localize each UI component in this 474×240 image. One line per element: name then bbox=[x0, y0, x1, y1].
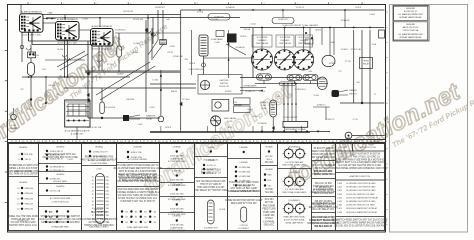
svg-text:B4: B4 bbox=[126, 222, 128, 224]
svg-text:21A BLK 348 L-B: 21A BLK 348 L-B bbox=[314, 225, 332, 228]
svg-text:C-670: C-670 bbox=[337, 208, 342, 210]
svg-text:L.H. FRONT PARK AND: L.H. FRONT PARK AND bbox=[285, 161, 304, 164]
svg-text:TURN GRN: TURN GRN bbox=[263, 212, 275, 214]
svg-text:14 GRN 30A: 14 GRN 30A bbox=[239, 166, 251, 169]
svg-text:GRY GND L-B BLK LAMP: GRY GND L-B BLK LAMP bbox=[230, 187, 257, 190]
svg-text:14 RED-YEL 297: 14 RED-YEL 297 bbox=[93, 151, 109, 153]
svg-text:460 BLK VIO VIO: 460 BLK VIO VIO bbox=[314, 168, 332, 170]
svg-text:DIRECTIONAL SIGNAL LAMPS: DIRECTIONAL SIGNAL LAMPS bbox=[282, 164, 307, 167]
svg-text:GRN-640: GRN-640 bbox=[25, 204, 34, 206]
svg-text:16 BLK 640 CIRCUIT TO ALL GAUG: 16 BLK 640 CIRCUIT TO ALL GAUGES bbox=[282, 24, 318, 27]
svg-text:16: 16 bbox=[92, 215, 94, 217]
svg-text:C-630: C-630 bbox=[337, 194, 342, 196]
svg-text:A CONN: A CONN bbox=[266, 155, 274, 158]
svg-text:12 BLK 37: 12 BLK 37 bbox=[326, 119, 335, 121]
svg-text:19 BLK 297: 19 BLK 297 bbox=[219, 86, 229, 88]
svg-text:W TURN LAMP FEED: W TURN LAMP FEED bbox=[168, 160, 187, 163]
svg-text:E LEGEND F: E LEGEND F bbox=[289, 200, 301, 202]
svg-text:BLU 977: BLU 977 bbox=[95, 209, 105, 211]
svg-text:CLUSTER RELAY 348 30A MOTOR: CLUSTER RELAY 348 30A MOTOR bbox=[81, 218, 118, 221]
svg-text:57 RED COIL 16: 57 RED COIL 16 bbox=[315, 206, 333, 208]
svg-text:2: 2 bbox=[230, 3, 231, 5]
svg-text:C-901: C-901 bbox=[96, 169, 101, 171]
svg-text:C-601: C-601 bbox=[149, 107, 154, 109]
svg-text:30A 977 BATT 14 D-G 640 FEED L: 30A 977 BATT 14 D-G 640 FEED LAMP TURN bbox=[336, 161, 384, 164]
svg-text:14 BRN 977: 14 BRN 977 bbox=[155, 7, 165, 9]
svg-text:14 BLK-YEL 37A: 14 BLK-YEL 37A bbox=[87, 126, 102, 129]
svg-text:RED LAMP 977 PNK 297: RED LAMP 977 PNK 297 bbox=[231, 202, 258, 205]
svg-text:37 BLU: 37 BLU bbox=[265, 218, 273, 220]
svg-text:GND CLUSTER FEED 37 BLK 21A GR: GND CLUSTER FEED 37 BLK 21A GRY bbox=[39, 218, 81, 221]
svg-text:16: 16 bbox=[92, 176, 94, 178]
svg-text:C-710 CLUSTER: C-710 CLUSTER bbox=[283, 117, 298, 119]
svg-text:C-710: C-710 bbox=[352, 119, 357, 121]
svg-text:TURN YEL L-B BATT PANEL 37 GRY: TURN YEL L-B BATT PANEL 37 GRY bbox=[118, 174, 157, 177]
svg-text:C-660: C-660 bbox=[337, 205, 342, 207]
svg-text:14 RED: 14 RED bbox=[260, 102, 267, 104]
svg-text:LEGEND: LEGEND bbox=[19, 147, 28, 149]
svg-text:640: 640 bbox=[166, 19, 169, 21]
svg-text:FUEL AND: FUEL AND bbox=[281, 39, 290, 42]
svg-text:21A GRN: 21A GRN bbox=[126, 98, 135, 101]
svg-text:16: 16 bbox=[92, 194, 94, 196]
svg-text:BRN BRN 57 37 14: BRN BRN 57 37 14 bbox=[201, 173, 222, 175]
svg-text:14 GRN 30A: 14 GRN 30A bbox=[239, 171, 251, 174]
svg-text:RELAY 16 16 640 BLK PNK: RELAY 16 16 640 BLK PNK bbox=[85, 156, 114, 159]
svg-text:C LEGEND D: C LEGEND D bbox=[289, 172, 301, 174]
svg-text:SIGNAL LAMP WIRING: SIGNAL LAMP WIRING bbox=[285, 222, 304, 225]
svg-text:14 BLK-YEL 37: 14 BLK-YEL 37 bbox=[50, 151, 65, 153]
svg-text:4: 4 bbox=[130, 3, 131, 5]
svg-text:FUEL AND: FUEL AND bbox=[258, 39, 267, 42]
svg-text:C-620: C-620 bbox=[337, 190, 342, 192]
svg-text:37 FUSE SWITCH TURN DOME GRY 1: 37 FUSE SWITCH TURN DOME GRY 16 bbox=[116, 165, 159, 167]
svg-text:460 WIPER 348 CONN: 460 WIPER 348 CONN bbox=[311, 157, 335, 159]
svg-text:AL AMP ALTERNATOR: AL AMP ALTERNATOR bbox=[57, 18, 78, 21]
svg-text:4 BLK 640 GND: 4 BLK 640 GND bbox=[170, 209, 184, 211]
svg-text:460 18 297 LAMP: 460 18 297 LAMP bbox=[314, 170, 333, 173]
svg-text:37 YEL: 37 YEL bbox=[345, 61, 351, 63]
svg-text:14 RED-YEL IGNITION COIL FEED: 14 RED-YEL IGNITION COIL FEED bbox=[346, 194, 375, 196]
svg-text:54 STOP SOL 37 WHT BATT 54 297: 54 STOP SOL 37 WHT BATT 54 297 54 bbox=[339, 153, 380, 156]
svg-text:HORN: HORN bbox=[363, 61, 369, 63]
svg-text:16 GRN-RED LIGHT SWITCH FEED: 16 GRN-RED LIGHT SWITCH FEED bbox=[346, 183, 376, 185]
svg-text:A JUNCTION: A JUNCTION bbox=[18, 219, 29, 222]
svg-text:2: 2 bbox=[30, 3, 31, 5]
svg-text:AL AMP ALTERNATOR: AL AMP ALTERNATOR bbox=[21, 10, 42, 13]
svg-text:LEGEND: LEGEND bbox=[406, 24, 415, 26]
svg-text:TURN 21A GRY RED HORN: TURN 21A GRY RED HORN bbox=[229, 181, 259, 184]
svg-text:30A CLUSTER FEED RED MOTOR SOL: 30A CLUSTER FEED RED MOTOR SOL LAMP bbox=[113, 167, 162, 170]
svg-text:B4: B4 bbox=[144, 222, 146, 224]
svg-text:A12: A12 bbox=[49, 210, 52, 213]
svg-text:W REAR LAMPS RELAY: W REAR LAMPS RELAY bbox=[399, 16, 422, 19]
svg-text:A 1500 B 1550 C 1600: A 1500 B 1550 C 1600 bbox=[22, 34, 41, 37]
svg-text:16 GRN-RED LIGHT SWITCH FEED: 16 GRN-RED LIGHT SWITCH FEED bbox=[346, 201, 376, 203]
svg-text:14 GRN 30A: 14 GRN 30A bbox=[239, 175, 251, 178]
svg-text:GND 30A PARK BRN IGN RED WIPER: GND 30A PARK BRN IGN RED WIPER bbox=[117, 188, 158, 191]
svg-text:TEMP GAUGE: TEMP GAUGE bbox=[279, 42, 292, 45]
svg-text:14 BLK 904: 14 BLK 904 bbox=[133, 19, 143, 21]
svg-text:PNK GND HORN D-G 297: PNK GND HORN D-G 297 bbox=[197, 187, 225, 189]
svg-text:A LAMP RELAY: A LAMP RELAY bbox=[170, 195, 184, 198]
svg-text:C-680: C-680 bbox=[337, 212, 342, 214]
svg-text:297: 297 bbox=[20, 89, 23, 91]
svg-text:16 BLK: 16 BLK bbox=[165, 127, 172, 129]
svg-text:GROUND: GROUND bbox=[10, 128, 19, 130]
svg-text:16 GRN-RED LIGHT SWITCH FEED: 16 GRN-RED LIGHT SWITCH FEED bbox=[346, 187, 376, 189]
svg-text:GRY COIL BRN DOME 348 IGN BRN: GRY COIL BRN DOME 348 IGN BRN bbox=[41, 222, 80, 224]
svg-text:C-601: C-601 bbox=[137, 124, 142, 126]
svg-text:LEGEND: LEGEND bbox=[95, 147, 104, 149]
svg-text:MOTOR RELAY RED SWITCH: MOTOR RELAY RED SWITCH bbox=[307, 222, 339, 225]
svg-text:16: 16 bbox=[92, 201, 94, 203]
svg-text:REAR LAMP DIRECTIONAL: REAR LAMP DIRECTIONAL bbox=[284, 216, 306, 219]
svg-text:FEED TURN: FEED TURN bbox=[262, 209, 275, 211]
svg-text:SWITCH WHT IGN D-G 16: SWITCH WHT IGN D-G 16 bbox=[9, 225, 37, 227]
svg-text:14 GRN: 14 GRN bbox=[341, 49, 348, 51]
svg-text:W CLUSTER: W CLUSTER bbox=[280, 37, 291, 39]
svg-text:A CLUSTER 57A FEED: A CLUSTER 57A FEED bbox=[128, 158, 148, 161]
svg-text:14 BLK-YEL STARTER MOTOR RELAY: 14 BLK-YEL STARTER MOTOR RELAY bbox=[346, 196, 379, 199]
svg-text:640 TURN GRN PNK 54 20 FUSE: 640 TURN GRN PNK 54 20 FUSE bbox=[43, 157, 79, 159]
svg-text:14 YEL 21A: 14 YEL 21A bbox=[50, 189, 61, 192]
svg-text:GND ACC: GND ACC bbox=[264, 224, 275, 227]
svg-text:B 640: B 640 bbox=[261, 105, 266, 107]
svg-text:14 YEL-BLK: 14 YEL-BLK bbox=[105, 107, 116, 109]
svg-text:C-603: C-603 bbox=[67, 159, 72, 161]
svg-text:B4: B4 bbox=[126, 211, 128, 213]
svg-text:RED: RED bbox=[268, 174, 273, 176]
svg-text:C-830: C-830 bbox=[169, 46, 174, 48]
svg-text:ABCD-123 FD-30: ABCD-123 FD-30 bbox=[403, 26, 420, 29]
svg-text:R.H. FRONT PARK AND: R.H. FRONT PARK AND bbox=[285, 188, 304, 191]
svg-text:TURN BATT GRY YEL 37 PNK 57: TURN BATT GRY YEL 37 PNK 57 bbox=[120, 200, 156, 203]
svg-text:LEGEND: LEGEND bbox=[173, 171, 182, 173]
svg-text:18 904 YEL BLK CLUSTER COIL 21: 18 904 YEL BLK CLUSTER COIL 21A bbox=[118, 197, 157, 200]
svg-text:4 BLK 640 GND: 4 BLK 640 GND bbox=[170, 194, 184, 196]
svg-text:16 BLU: 16 BLU bbox=[315, 30, 322, 32]
svg-text:30A-21: 30A-21 bbox=[171, 90, 177, 93]
svg-text:B4: B4 bbox=[144, 211, 146, 213]
svg-text:W HEADLAMP FEED: W HEADLAMP FEED bbox=[52, 226, 70, 229]
svg-text:RELAY: RELAY bbox=[363, 63, 370, 66]
svg-text:ACC PARK 54 20 CLUSTER: ACC PARK 54 20 CLUSTER bbox=[8, 173, 38, 176]
svg-text:LEGEND: LEGEND bbox=[265, 147, 273, 149]
svg-text:20 BLU: 20 BLU bbox=[259, 91, 266, 93]
svg-text:B4: B4 bbox=[154, 211, 156, 213]
svg-text:16 BLU 57A: 16 BLU 57A bbox=[131, 151, 142, 154]
svg-text:C-830 FUSE LINK: C-830 FUSE LINK bbox=[188, 69, 204, 71]
svg-text:16: 16 bbox=[92, 190, 94, 192]
svg-text:14 BLK: 14 BLK bbox=[132, 52, 139, 54]
svg-text:PANEL YEL HTR ORG PARK: PANEL YEL HTR ORG PARK bbox=[8, 215, 39, 218]
svg-text:16 PANEL DOME D-G SWITCH ORG B: 16 PANEL DOME D-G SWITCH ORG BLU bbox=[116, 191, 160, 194]
svg-text:LEGEND: LEGEND bbox=[406, 8, 415, 10]
svg-text:57 460 GRN 14 640 WHT 21A: 57 460 GRN 14 640 WHT 21A bbox=[45, 153, 76, 156]
svg-text:37 HTR PNK CONN: 37 HTR PNK CONN bbox=[313, 190, 334, 192]
svg-text:30A ACC 14 640: 30A ACC 14 640 bbox=[315, 182, 333, 185]
svg-text:STARTER: STARTER bbox=[146, 115, 156, 118]
svg-text:LEGEND: LEGEND bbox=[133, 147, 142, 149]
svg-text:57 640 BLU 18: 57 640 BLU 18 bbox=[316, 187, 332, 189]
svg-text:20 GA: 20 GA bbox=[261, 107, 267, 110]
svg-text:18 PNK: 18 PNK bbox=[265, 189, 273, 191]
svg-text:GND 4: GND 4 bbox=[266, 159, 272, 161]
svg-text:C-600: C-600 bbox=[337, 183, 342, 185]
svg-text:57 GRN: 57 GRN bbox=[75, 59, 82, 61]
svg-text:12 BLK: 12 BLK bbox=[355, 7, 362, 9]
svg-text:IGNITION: IGNITION bbox=[220, 80, 229, 82]
svg-text:B4: B4 bbox=[135, 211, 137, 213]
svg-text:16 BLK: 16 BLK bbox=[189, 63, 196, 65]
svg-text:16: 16 bbox=[92, 204, 94, 206]
svg-text:4 BLK 640 GND: 4 BLK 640 GND bbox=[170, 180, 184, 182]
svg-text:A CIRCUIT 37: A CIRCUIT 37 bbox=[404, 10, 418, 13]
svg-text:LEGEND: LEGEND bbox=[240, 162, 249, 164]
svg-text:57: 57 bbox=[374, 94, 376, 96]
svg-text:LEGEND: LEGEND bbox=[56, 186, 65, 188]
svg-text:YEL 904: YEL 904 bbox=[265, 192, 274, 194]
svg-text:977 BLK: 977 BLK bbox=[182, 99, 190, 101]
svg-text:YEL 21A DOME BATT BLK: YEL 21A DOME BATT BLK bbox=[230, 190, 258, 193]
svg-text:14 YEL 37: 14 YEL 37 bbox=[296, 7, 305, 9]
svg-text:B CONNECT: B CONNECT bbox=[238, 228, 249, 230]
svg-text:16 RED-BLU: 16 RED-BLU bbox=[295, 89, 307, 91]
svg-text:5: 5 bbox=[97, 3, 98, 5]
svg-text:4 BLK 640 GND: 4 BLK 640 GND bbox=[170, 225, 184, 227]
svg-text:W TURN LAMP FEED: W TURN LAMP FEED bbox=[168, 229, 187, 232]
svg-text:YEL-57: YEL-57 bbox=[25, 159, 33, 161]
svg-text:1 GEN: 1 GEN bbox=[82, 19, 88, 21]
svg-text:WIPER L-B VIO ACC STOP: WIPER L-B VIO ACC STOP bbox=[9, 167, 38, 170]
svg-text:54 904 977 CONN: 54 904 977 CONN bbox=[314, 148, 333, 150]
svg-text:21A GRN ACC HTR: 21A GRN ACC HTR bbox=[313, 216, 334, 219]
svg-text:A LAMP RELAY: A LAMP RELAY bbox=[170, 210, 184, 213]
svg-text:TEMP GAUGE: TEMP GAUGE bbox=[256, 42, 269, 45]
svg-text:57 BLK: 57 BLK bbox=[197, 12, 204, 14]
svg-text:RELAY: RELAY bbox=[146, 118, 153, 121]
svg-text:STOP 20 16 57 MOTOR YEL SWITCH: STOP 20 16 57 MOTOR YEL SWITCH bbox=[40, 216, 80, 218]
svg-text:IGN 348: IGN 348 bbox=[95, 215, 104, 217]
svg-text:16 YEL 21: 16 YEL 21 bbox=[207, 165, 217, 167]
svg-text:297 16 GRY PNK 37 BLU 21A ORG: 297 16 GRY PNK 37 BLU 21A ORG 14 bbox=[340, 155, 381, 158]
svg-text:16 GA: 16 GA bbox=[313, 94, 319, 97]
svg-text:W TURN LAMP FEED: W TURN LAMP FEED bbox=[168, 198, 187, 201]
svg-text:GRN-640: GRN-640 bbox=[25, 188, 34, 190]
svg-text:VIO 904 COIL TURN 297 FUSE CON: VIO 904 COIL TURN 297 FUSE CONN bbox=[118, 195, 158, 197]
svg-text:16 GA 640: 16 GA 640 bbox=[236, 46, 245, 49]
svg-text:COIL DOME BATT MOTOR VIO 18 CO: COIL DOME BATT MOTOR VIO 18 CONN bbox=[116, 180, 160, 183]
svg-text:A-12: A-12 bbox=[228, 126, 232, 129]
svg-text:1: 1 bbox=[364, 3, 365, 5]
svg-text:A LAMP RELAY: A LAMP RELAY bbox=[170, 157, 184, 160]
svg-text:14 BRN: 14 BRN bbox=[117, 74, 124, 76]
svg-text:LEGEND: LEGEND bbox=[173, 147, 182, 149]
svg-text:SOL 904: SOL 904 bbox=[265, 199, 275, 201]
svg-text:ORG VIO CLUSTER 20: ORG VIO CLUSTER 20 bbox=[311, 165, 336, 167]
svg-text:D-G 640 297 904 YEL PNK PNK D-: D-G 640 297 904 YEL PNK PNK D-G 460 bbox=[338, 165, 381, 167]
svg-text:AL AMP ALTERNATOR: AL AMP ALTERNATOR bbox=[91, 25, 112, 28]
svg-text:CIRCUIT 640 GA: CIRCUIT 640 GA bbox=[403, 29, 419, 32]
svg-text:16: 16 bbox=[92, 180, 94, 182]
svg-text:16 GRN 640: 16 GRN 640 bbox=[115, 30, 126, 32]
svg-text:14 YEL: 14 YEL bbox=[33, 55, 39, 57]
svg-text:BLK: BLK bbox=[268, 180, 272, 182]
svg-text:B4: B4 bbox=[135, 222, 137, 224]
svg-text:LEGEND: LEGEND bbox=[265, 169, 273, 171]
svg-text:A CLUSTER FEED WIRE: A CLUSTER FEED WIRE bbox=[50, 197, 71, 200]
svg-text:14 BRN: 14 BRN bbox=[329, 63, 336, 65]
svg-text:DOME BATT PANEL CONN: DOME BATT PANEL CONN bbox=[309, 219, 338, 222]
svg-text:2 BAT: 2 BAT bbox=[47, 12, 53, 15]
svg-text:GRN-640: GRN-640 bbox=[25, 193, 34, 195]
svg-text:BLU CLUSTER: BLU CLUSTER bbox=[91, 212, 107, 214]
svg-text:904 YEL RELAY RELAY 640: 904 YEL RELAY RELAY 640 bbox=[196, 180, 226, 183]
svg-text:16: 16 bbox=[92, 183, 94, 185]
svg-text:B 297: B 297 bbox=[28, 109, 33, 111]
svg-text:HORN FUSE 640 PARK BLK: HORN FUSE 640 PARK BLK bbox=[84, 224, 114, 227]
svg-text:LEGEND: LEGEND bbox=[240, 147, 249, 149]
svg-text:LEGEND: LEGEND bbox=[56, 174, 65, 176]
svg-text:C-650: C-650 bbox=[337, 201, 342, 203]
svg-text:460 30A: 460 30A bbox=[265, 161, 274, 164]
svg-text:L-B PANEL: L-B PANEL bbox=[263, 220, 275, 223]
svg-text:W TURN LAMP FEED: W TURN LAMP FEED bbox=[168, 184, 187, 187]
svg-text:BLK-37A: BLK-37A bbox=[25, 153, 34, 156]
svg-text:WHT 54 FUSE 18 L-B MOTOR BRN: WHT 54 FUSE 18 L-B MOTOR BRN bbox=[119, 171, 157, 173]
svg-text:16: 16 bbox=[92, 197, 94, 199]
svg-text:16 ORG HTR PARK FUSE PARK BLK: 16 ORG HTR PARK FUSE PARK BLK MOTOR IGN bbox=[333, 158, 386, 161]
svg-text:460 BLK PANEL WIPER GRN DOME B: 460 BLK PANEL WIPER GRN DOME BLK GND STO… bbox=[332, 167, 388, 170]
svg-text:21A ACC SWITCH PARK WIPER 640: 21A ACC SWITCH PARK WIPER 640 20 FUSE BA… bbox=[332, 221, 387, 224]
svg-text:16: 16 bbox=[92, 208, 94, 210]
svg-text:977: 977 bbox=[338, 71, 341, 73]
svg-text:940: 940 bbox=[356, 82, 359, 84]
svg-text:B4: B4 bbox=[154, 222, 156, 224]
svg-text:PNK RELAY 977 SWITCH ORG: PNK RELAY 977 SWITCH ORG bbox=[194, 189, 227, 192]
svg-text:A 14 BLK FEED: A 14 BLK FEED bbox=[53, 180, 67, 183]
svg-text:C-604: C-604 bbox=[250, 24, 255, 26]
svg-text:21A BLK STOP FEED BLK GRN 460: 21A BLK STOP FEED BLK GRN 460 bbox=[119, 177, 157, 180]
svg-text:DOME 640 MOTOR SWITCH LAMP: DOME 640 MOTOR SWITCH LAMP bbox=[225, 199, 263, 202]
svg-text:37 YEL: 37 YEL bbox=[107, 64, 113, 66]
svg-text:C-604: C-604 bbox=[369, 14, 375, 16]
svg-text:PNK DOME: PNK DOME bbox=[263, 205, 276, 207]
svg-text:16: 16 bbox=[92, 187, 94, 189]
svg-text:ORG VIO 977 CLUSTER 20 RELAY: ORG VIO 977 CLUSTER 20 RELAY bbox=[81, 159, 118, 162]
svg-text:B4: B4 bbox=[135, 217, 137, 219]
svg-text:LEGEND: LEGEND bbox=[56, 147, 65, 149]
svg-text:C-610: C-610 bbox=[337, 187, 342, 189]
svg-text:57 RELAY SWITCH 14: 57 RELAY SWITCH 14 bbox=[311, 173, 335, 176]
svg-text:16 GA: 16 GA bbox=[247, 108, 253, 111]
svg-text:GRN-640: GRN-640 bbox=[25, 198, 34, 200]
svg-text:16 BLK 640: 16 BLK 640 bbox=[123, 11, 133, 13]
svg-text:16 GA: 16 GA bbox=[133, 42, 139, 45]
svg-text:A CONNECTOR: A CONNECTOR bbox=[204, 227, 218, 230]
svg-text:SWITCH: SWITCH bbox=[220, 83, 228, 85]
svg-text:14 BRN 977: 14 BRN 977 bbox=[214, 16, 224, 18]
svg-text:18 BLU-BLK HEATER MOTOR RELAY: 18 BLU-BLK HEATER MOTOR RELAY bbox=[346, 207, 378, 210]
svg-text:VIO IGN HTR BLU GRN: VIO IGN HTR BLU GRN bbox=[11, 222, 36, 224]
svg-text:14 GRN: 14 GRN bbox=[219, 209, 226, 211]
svg-text:B4: B4 bbox=[144, 217, 146, 219]
svg-text:297: 297 bbox=[104, 49, 107, 51]
svg-text:W COLOR CODE: W COLOR CODE bbox=[360, 147, 377, 149]
svg-text:16 GRN-RED 57: 16 GRN-RED 57 bbox=[50, 170, 66, 172]
svg-text:4 JUNCTION BLOCK: 4 JUNCTION BLOCK bbox=[52, 201, 70, 203]
svg-text:L.H. MARKER WIRING SHT: L.H. MARKER WIRING SHT bbox=[398, 13, 424, 16]
svg-text:1: 1 bbox=[63, 3, 64, 5]
svg-text:14 BRN 977: 14 BRN 977 bbox=[278, 19, 288, 21]
svg-text:16 RED: 16 RED bbox=[240, 36, 247, 38]
svg-text:FUEL AND: FUEL AND bbox=[300, 39, 309, 42]
svg-text:297 VIO: 297 VIO bbox=[265, 202, 274, 204]
svg-text:18 BLU-BLK HEATER MOTOR RELAY: 18 BLU-BLK HEATER MOTOR RELAY bbox=[346, 211, 378, 214]
svg-text:A LEGEND B: A LEGEND B bbox=[289, 145, 301, 148]
svg-text:14 RED-YEL IGNITION COIL FEED: 14 RED-YEL IGNITION COIL FEED bbox=[346, 205, 375, 207]
svg-text:L-B COIL IGN 20 CLUSTER TURN C: L-B COIL IGN 20 CLUSTER TURN COIL 30A PN… bbox=[334, 224, 386, 227]
svg-text:16 GA: 16 GA bbox=[152, 79, 158, 82]
svg-text:C-709: C-709 bbox=[227, 121, 232, 123]
svg-text:W CLUSTER: W CLUSTER bbox=[257, 37, 268, 39]
svg-text:B HEADLAMPS: B HEADLAMPS bbox=[244, 84, 258, 87]
svg-text:CONN 348 HTR BATT: CONN 348 HTR BATT bbox=[312, 153, 336, 156]
svg-text:C-640: C-640 bbox=[337, 197, 342, 199]
svg-text:A STOP OR DIRECTIONAL: A STOP OR DIRECTIONAL bbox=[284, 219, 305, 222]
svg-text:16 640: 16 640 bbox=[57, 49, 63, 51]
svg-text:GRN-640: GRN-640 bbox=[25, 209, 34, 211]
svg-text:B4: B4 bbox=[126, 217, 128, 219]
svg-text:FUEL GAUGE: FUEL GAUGE bbox=[224, 117, 237, 120]
svg-text:LAMP 460: LAMP 460 bbox=[264, 214, 275, 217]
svg-text:654: 654 bbox=[42, 69, 45, 71]
svg-text:LEGEND: LEGEND bbox=[207, 147, 216, 149]
svg-text:19 RED: 19 RED bbox=[225, 91, 232, 93]
svg-text:16 RED 10: 16 RED 10 bbox=[317, 104, 326, 106]
svg-text:4 BLK 640 GND: 4 BLK 640 GND bbox=[170, 156, 184, 158]
svg-text:3: 3 bbox=[197, 3, 198, 5]
svg-text:W REAR LAMPS RELAY: W REAR LAMPS RELAY bbox=[399, 36, 422, 39]
svg-text:HTR 57 977 GRN 57: HTR 57 977 GRN 57 bbox=[200, 184, 222, 186]
svg-text:A BATTERY JUNCTION: A BATTERY JUNCTION bbox=[350, 175, 371, 178]
svg-text:4 JUNCTION PANEL: 4 JUNCTION PANEL bbox=[91, 162, 108, 165]
svg-text:37 BLK-YEL: 37 BLK-YEL bbox=[351, 49, 361, 51]
svg-text:9: 9 bbox=[264, 3, 265, 5]
svg-text:C-830: C-830 bbox=[215, 42, 220, 44]
svg-text:37 FEED 30A 30A 54: 37 FEED 30A 30A 54 bbox=[233, 184, 255, 187]
svg-text:7: 7 bbox=[331, 3, 332, 5]
svg-text:B4: B4 bbox=[154, 217, 156, 219]
svg-text:L.H. MARKER WIRING SHT: L.H. MARKER WIRING SHT bbox=[398, 33, 424, 36]
svg-text:BLU 297 RELAY VIO: BLU 297 RELAY VIO bbox=[312, 208, 334, 211]
svg-text:640: 640 bbox=[56, 94, 59, 96]
svg-text:LEGEND: LEGEND bbox=[19, 182, 28, 184]
svg-text:16 HTR SOL 16 YEL: 16 HTR SOL 16 YEL bbox=[88, 222, 110, 224]
svg-text:C SPLICE: C SPLICE bbox=[240, 225, 249, 227]
svg-text:W TURN LAMP FEED: W TURN LAMP FEED bbox=[168, 213, 187, 216]
svg-text:640 DOME BATT LAMP: 640 DOME BATT LAMP bbox=[311, 202, 336, 205]
svg-text:16 RED 19: 16 RED 19 bbox=[245, 91, 254, 93]
svg-text:FUSE PANEL: FUSE PANEL bbox=[211, 38, 223, 41]
svg-text:DIRECTIONAL SIGNAL LAMPS: DIRECTIONAL SIGNAL LAMPS bbox=[282, 191, 307, 194]
svg-text:640 BLK: 640 BLK bbox=[48, 85, 56, 87]
svg-text:16 GRN-RED 57: 16 GRN-RED 57 bbox=[50, 166, 66, 168]
svg-text:2: 2 bbox=[297, 3, 298, 5]
svg-text:16 GA 640: 16 GA 640 bbox=[226, 6, 235, 9]
svg-text:GRN BRN RELAY SWITCH 16: GRN BRN RELAY SWITCH 16 bbox=[7, 164, 39, 167]
